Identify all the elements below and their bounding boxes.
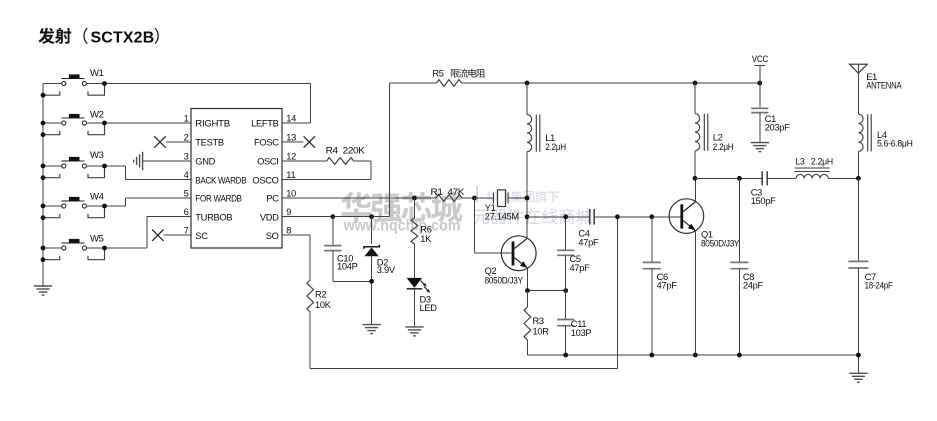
wire W3 to pin 4 — [86, 164, 191, 180]
title 发射（SCTX2B） — [38, 28, 158, 47]
pin 7 SC no-connect — [152, 230, 191, 241]
pushbutton switch W2 — [43, 110, 105, 135]
pin 3 GND wire — [143, 160, 191, 162]
wire VCC rail — [461, 81, 762, 86]
wire W5 to pin 6 — [86, 217, 191, 251]
svg-text:2.2μH: 2.2μH — [713, 142, 734, 152]
crystal Y1 27.145M — [474, 190, 527, 221]
svg-text:TURBOB: TURBOB — [195, 212, 232, 222]
svg-text:203pF: 203pF — [765, 123, 790, 133]
svg-text:5.6-6.8μH: 5.6-6.8μH — [877, 138, 913, 148]
pushbutton switch W1 — [43, 68, 105, 95]
inductor L3 2.2uH — [767, 156, 858, 178]
svg-text:GND: GND — [195, 157, 215, 167]
resistor R2 10K — [307, 280, 332, 312]
svg-text:14: 14 — [286, 114, 296, 124]
ground (D2) — [362, 325, 380, 334]
svg-text:W3: W3 — [90, 150, 104, 161]
wire W4 to pin 5 — [86, 198, 191, 208]
wire Q2 collector to C4 — [527, 214, 589, 219]
ground rail wire — [527, 353, 860, 374]
svg-text:8050D/J3Y: 8050D/J3Y — [485, 275, 523, 285]
watermark separator bar — [476, 186, 478, 203]
svg-text:47pF: 47pF — [657, 280, 678, 290]
transistor Q2 8050D/J3Y — [474, 198, 536, 285]
pushbutton switch W5 — [43, 233, 105, 259]
ground (C1) — [751, 143, 769, 152]
svg-text:FOR WARDB: FOR WARDB — [195, 194, 242, 204]
svg-text:SC: SC — [195, 231, 208, 241]
capacitor C10 104P — [324, 217, 371, 282]
inductor L1 2.2uH — [525, 83, 566, 238]
svg-text:104P: 104P — [337, 262, 358, 272]
zener diode D2 3.9V — [364, 217, 396, 325]
power VCC — [752, 54, 769, 83]
svg-text:TESTB: TESTB — [195, 138, 224, 148]
watermark www.hqchip.com — [343, 217, 461, 234]
watermark 元器件在线商城 — [473, 208, 592, 224]
wire pin 8 SO — [282, 235, 310, 280]
transistor Q1 8050D/J3Y — [669, 178, 739, 355]
capacitor C11 103P — [557, 291, 591, 355]
svg-text:PC: PC — [266, 194, 279, 204]
resistor R6 1K — [411, 198, 432, 278]
svg-text:LEFTB: LEFTB — [251, 119, 279, 129]
svg-text:47pF: 47pF — [578, 237, 599, 247]
inductor L4 5.6-6.8uH — [856, 114, 913, 181]
svg-text:R4 220K: R4 220K — [326, 146, 366, 156]
svg-text:VCC: VCC — [752, 54, 769, 64]
svg-text:W2: W2 — [90, 110, 104, 121]
LED D3 — [407, 278, 438, 327]
capacitor C8 24pF — [730, 178, 763, 355]
inductor L2 2.2uH — [693, 83, 734, 181]
svg-text:8: 8 — [286, 226, 291, 236]
capacitor C7 18-24pF — [848, 178, 893, 355]
svg-text:2.2μH: 2.2μH — [545, 142, 566, 152]
svg-text:18-24pF: 18-24pF — [865, 280, 894, 290]
ground (rail) — [849, 373, 867, 382]
svg-text:BACK WARDB: BACK WARDB — [195, 175, 246, 185]
svg-text:8050D/J3Y: 8050D/J3Y — [701, 238, 739, 248]
svg-text:LED: LED — [420, 303, 438, 313]
ground (pin 3, rotated) — [134, 152, 143, 170]
svg-text:9: 9 — [286, 207, 291, 217]
wire pin 12 OSCI — [282, 160, 327, 162]
svg-text:R1 47K: R1 47K — [431, 187, 466, 197]
resistor R3 10R — [524, 291, 549, 355]
ground (bus) — [34, 286, 52, 295]
svg-text:SO: SO — [266, 231, 279, 241]
svg-text:12: 12 — [286, 152, 296, 162]
watermark 华强芯城 — [341, 192, 463, 223]
svg-text:27.145M: 27.145M — [485, 211, 519, 221]
svg-text:11: 11 — [286, 170, 295, 180]
resistor R4 220K — [326, 146, 366, 165]
svg-text:W1: W1 — [90, 68, 104, 79]
svg-text:SCTX2B: SCTX2B — [91, 29, 155, 46]
capacitor C1 203pF — [751, 83, 790, 143]
svg-text:5: 5 — [184, 189, 189, 199]
svg-text:RIGHTB: RIGHTB — [195, 119, 230, 129]
svg-text:6: 6 — [184, 207, 189, 217]
svg-text:10: 10 — [286, 189, 296, 199]
ground (D3) — [405, 327, 423, 336]
capacitor C3 150pF — [695, 171, 776, 206]
svg-text:1K: 1K — [420, 234, 432, 244]
pin 13 FOSC no-connect — [282, 136, 315, 147]
svg-text:10K: 10K — [315, 300, 332, 310]
svg-text:10R: 10R — [533, 326, 550, 336]
capacitor C6 47pF — [643, 217, 677, 355]
wire C4 to Q1 base — [594, 214, 680, 219]
capacitor C4 47pF — [578, 209, 599, 247]
svg-text:103P: 103P — [571, 328, 592, 338]
wire W1 to pin 14 — [86, 81, 310, 123]
op-amp/encoder IC U1 SCTX2B — [191, 109, 282, 249]
svg-text:3: 3 — [184, 152, 189, 162]
svg-text:VDD: VDD — [260, 212, 279, 222]
ground bus wire — [42, 84, 44, 287]
svg-text:OSCO: OSCO — [252, 175, 278, 185]
capacitor C5 47pF — [557, 217, 590, 291]
svg-text:R3: R3 — [533, 316, 544, 326]
svg-text:47pF: 47pF — [570, 263, 591, 273]
svg-text:www.hqchip.com: www.hqchip.com — [343, 217, 461, 234]
svg-text:R6: R6 — [420, 225, 431, 235]
svg-text:1: 1 — [184, 114, 189, 124]
wire pin 9 VDD — [282, 83, 389, 219]
wire Q2 emitter node — [525, 268, 568, 293]
svg-text:OSCI: OSCI — [257, 157, 279, 167]
pushbutton switch W3 — [43, 150, 105, 178]
svg-text:L3 2.2μH: L3 2.2μH — [795, 156, 833, 166]
resistor R5 限流电阻 — [389, 69, 485, 87]
svg-text:4: 4 — [184, 170, 189, 180]
svg-text:7: 7 — [184, 226, 189, 236]
antenna E1 — [850, 64, 903, 114]
svg-text:R5: R5 — [432, 69, 443, 79]
svg-text:3.9V: 3.9V — [377, 265, 396, 275]
pushbutton switch W4 — [43, 191, 105, 217]
wire pin 10 PC — [282, 196, 436, 201]
svg-text:2: 2 — [184, 133, 189, 143]
wire R2 to C4 node (feedback rail) — [310, 217, 617, 368]
wire W2 to pin 1 — [86, 121, 191, 126]
IC pin names and numbers — [184, 114, 297, 241]
svg-text:FOSC: FOSC — [254, 138, 279, 148]
svg-text:24pF: 24pF — [743, 280, 764, 290]
bus junction dots — [41, 93, 46, 262]
wire R1 to crystal node — [462, 196, 477, 201]
watermark 华强集团旗下 — [487, 191, 559, 203]
resistor R1 47K — [431, 187, 466, 201]
svg-text:ANTENNA: ANTENNA — [866, 81, 902, 91]
svg-text:13: 13 — [286, 133, 296, 143]
pin 2 TESTB no-connect — [154, 136, 191, 147]
svg-text:W4: W4 — [90, 191, 104, 202]
svg-text:R2: R2 — [315, 290, 326, 300]
svg-text:150pF: 150pF — [751, 196, 776, 206]
wire R4 to pin 11 OSCO — [282, 161, 371, 180]
svg-text:W5: W5 — [90, 233, 104, 244]
